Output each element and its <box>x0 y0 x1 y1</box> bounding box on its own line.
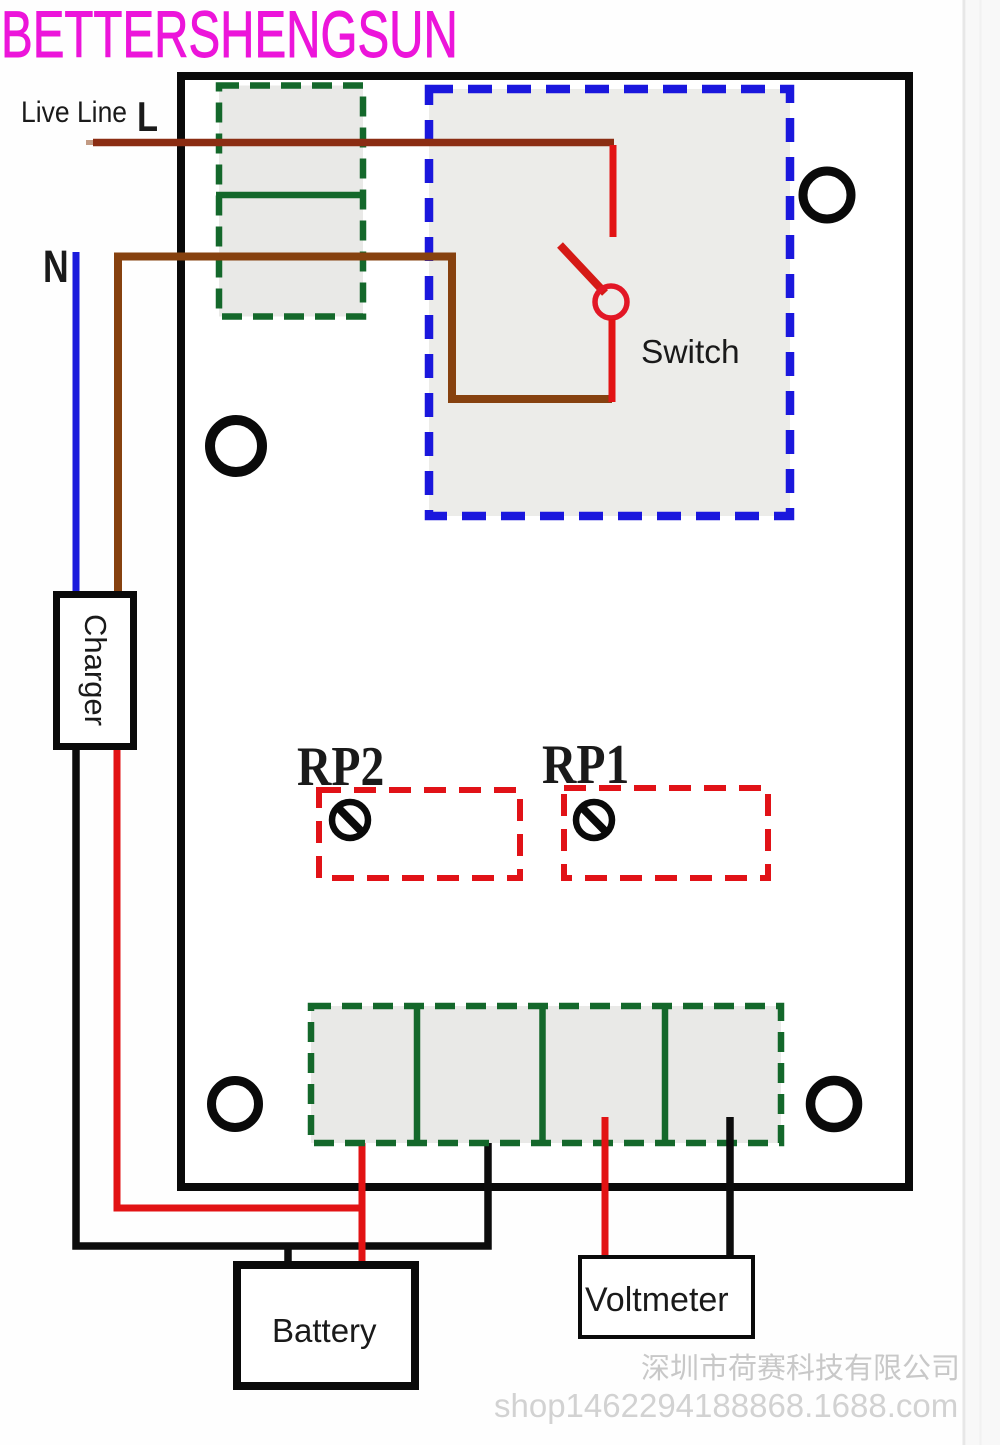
terminal divider 3 <box>662 1006 669 1143</box>
title BETTERSHENGSUN <box>1 0 458 72</box>
potentiometer RP1 box (red dashed) <box>564 788 768 878</box>
wire voltmeter negative (black) from terminal 4 <box>726 1117 734 1256</box>
photo right edge strip <box>966 0 1000 1445</box>
switch lever (red diagonal) <box>560 245 605 293</box>
terminal divider 1 <box>414 1006 421 1143</box>
photo right inner faint line <box>980 0 982 1445</box>
battery box <box>237 1265 415 1386</box>
label Charger (rotated) <box>77 614 113 726</box>
output terminal block (green dashed) <box>311 1006 781 1143</box>
label L <box>137 93 158 141</box>
label N <box>43 241 69 293</box>
mounting hole top-right <box>803 171 851 219</box>
watermark chinese <box>641 1345 960 1387</box>
label Live Line <box>21 96 127 130</box>
switch enclosure (blue dashed) <box>429 89 790 516</box>
terminal block top-left (green dashed) <box>219 86 363 317</box>
voltmeter box <box>580 1257 753 1337</box>
PCB board outline <box>181 76 909 1187</box>
wire charger positive (red) <box>117 750 362 1208</box>
photo right edge line <box>963 0 966 1445</box>
wire battery positive (red) from terminal 1 <box>359 1120 366 1270</box>
label RP1 <box>542 733 629 797</box>
wire charger negative (black) to terminal 2 <box>76 750 488 1246</box>
wire voltmeter positive (red) from terminal 3 <box>602 1117 609 1256</box>
switch lower red lead <box>609 319 616 402</box>
potentiometer RP1 screw <box>576 802 612 838</box>
wire live line lead-in tail <box>86 140 96 145</box>
wire battery negative stub <box>284 1246 292 1263</box>
label Switch <box>641 334 740 372</box>
mounting hole bottom-left <box>212 1081 259 1128</box>
switch contact circle <box>595 286 627 318</box>
watermark shop url <box>494 1387 958 1425</box>
wire neutral brown segment to switch <box>118 257 612 595</box>
label Voltmeter <box>585 1281 729 1320</box>
charger box <box>57 595 134 747</box>
green divider line in top terminal block <box>216 192 364 199</box>
mounting hole bottom-right <box>811 1081 858 1128</box>
mounting hole mid-left <box>210 420 262 472</box>
switch upper red lead <box>610 145 617 237</box>
potentiometer RP2 box (red dashed) <box>319 790 520 878</box>
wire live line (brown) <box>93 139 614 147</box>
potentiometer RP2 screw <box>332 802 368 838</box>
label Battery <box>272 1312 377 1350</box>
label RP2 <box>297 735 384 799</box>
terminal divider 2 <box>539 1006 546 1143</box>
wire neutral (blue) <box>73 252 80 594</box>
